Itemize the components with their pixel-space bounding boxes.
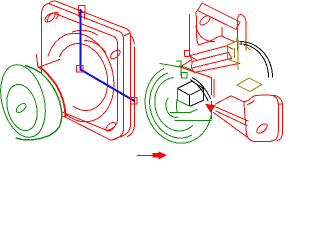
bolt hole top-left <box>43 11 56 23</box>
right cap small arc <box>166 98 178 117</box>
red grip marker blob <box>206 105 215 112</box>
top-left lobe outline <box>196 11 198 44</box>
green cap center hole <box>15 102 28 114</box>
yellow diamond <box>237 78 262 92</box>
right cap notch lines <box>160 64 180 68</box>
top-left lobe boss arc <box>196 26 215 42</box>
yellow right vertical lower <box>237 63 239 70</box>
red arrow <box>137 152 166 159</box>
bore big arc inner <box>240 44 269 77</box>
keyway slab top front edge <box>192 52 229 61</box>
keyway slab top back edge <box>190 46 226 56</box>
plate corner connector bottom-right <box>111 138 118 141</box>
green shelf line <box>171 110 198 113</box>
yellow chamfer quad upper <box>228 41 239 64</box>
arm bottom diagonal <box>214 113 248 138</box>
keyway slab left edges <box>190 56 192 69</box>
bolt hole bottom-right <box>104 121 117 133</box>
right cap outer ellipse arc <box>145 69 212 144</box>
sketch grip marker bend <box>77 66 84 73</box>
hex boss outline black edges <box>178 81 204 106</box>
sketch grip marker top notch <box>79 6 85 13</box>
post-notch arc <box>179 66 192 70</box>
plate second back edge right <box>128 47 135 137</box>
right cap step arc <box>150 73 192 138</box>
notch depth ticks <box>79 12 84 19</box>
bottom-right lobe top back edge <box>273 95 283 104</box>
plate second back top corner <box>131 36 135 45</box>
plate edges right of cap <box>180 60 190 67</box>
collar ring inner back rim arc <box>85 41 106 53</box>
right cap inner C arc <box>155 78 193 131</box>
keyway slab right end top <box>226 46 233 49</box>
arm mid edge a <box>216 107 248 121</box>
yellow mid vertical <box>234 48 236 57</box>
keyway slab bottom front edge <box>192 58 232 68</box>
top-right tab <box>238 14 246 50</box>
collar ring inner ellipse <box>60 44 108 111</box>
keyway slab right end <box>229 52 232 58</box>
collar bottom silhouette <box>64 114 68 116</box>
inner pad outline <box>48 13 118 131</box>
green grip marker <box>182 73 188 79</box>
keyway slab lower back edge <box>194 63 240 72</box>
boss cylinder arc outer <box>193 78 211 99</box>
collar ring back rim arc <box>73 30 98 35</box>
bottom-right lobe inner dip arc <box>247 100 254 104</box>
washer arc behind cap <box>40 68 66 117</box>
plate mid vertical <box>221 27 223 36</box>
boss cylinder arc inner <box>191 80 209 101</box>
yellow diagonal top <box>236 39 251 50</box>
arm mid edge b <box>216 111 247 126</box>
flange plate left edge <box>41 14 43 75</box>
collar top silhouette <box>38 60 60 68</box>
green cap back rim arc <box>16 66 62 141</box>
top-left lobe bore arc <box>198 36 235 45</box>
bolt hole top-right <box>109 48 122 60</box>
hex green left edge <box>178 88 191 106</box>
keyway slab lower left tick <box>192 68 195 72</box>
bore silhouette vertical <box>190 15 197 60</box>
top-left lobe hole <box>198 14 211 27</box>
right cap occlusion fill <box>137 59 220 151</box>
plate top face parallelogram <box>198 3 241 30</box>
plate corner connector top-right <box>124 33 131 36</box>
flange plate back outline <box>50 1 131 138</box>
collar ring outer ellipse <box>48 33 114 122</box>
cap occlusion fill <box>2 64 63 140</box>
arm top edge <box>216 96 244 104</box>
bore big arc outer <box>240 42 273 78</box>
washer back edge <box>36 55 38 68</box>
hex boss inner edges <box>178 88 204 106</box>
sketch vertical line <box>80 10 82 70</box>
hex boss occlusion fill <box>178 81 204 106</box>
sketch diagonal line <box>81 70 135 101</box>
green cap step ellipse <box>2 81 42 134</box>
flange plate front outline <box>42 4 124 141</box>
green cap outer ellipse <box>0 60 52 142</box>
bolt hole top-left back rim <box>54 12 59 18</box>
bottom-right lobe back edge <box>277 104 283 141</box>
sketch grip marker end <box>131 98 137 104</box>
right cap chord <box>175 120 211 122</box>
red grip marker square top <box>185 51 190 57</box>
bottom-right lobe hole <box>255 122 269 135</box>
bottom-right lobe <box>244 95 279 141</box>
right cap tiny arc near hex <box>176 97 177 112</box>
